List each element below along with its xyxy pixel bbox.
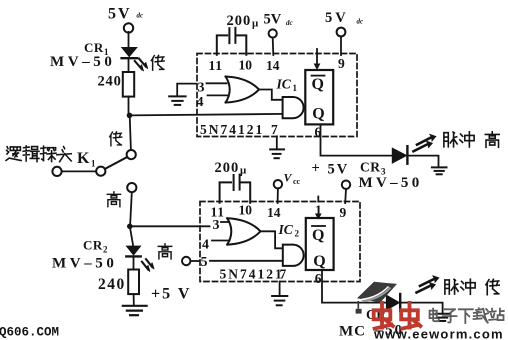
switch K1 blade bbox=[105, 157, 127, 169]
pin 6 label IC1 bbox=[315, 125, 322, 140]
wire CR4 cathode to ground bbox=[400, 303, 442, 313]
label Q IC2 bbox=[313, 253, 325, 270]
label CR3 bbox=[360, 160, 386, 177]
svg-text:2: 2 bbox=[103, 245, 108, 255]
wire pin 4 to OR gate input IC2 bbox=[212, 240, 230, 242]
pin 14 label IC2 bbox=[267, 205, 281, 220]
resistor 240 (lower) bbox=[128, 270, 139, 295]
svg-text:CR: CR bbox=[84, 40, 104, 55]
trigger arrow into Q block IC2 bbox=[315, 214, 322, 220]
wire pin 5 to AND gate input IC2 bbox=[210, 260, 282, 262]
svg-text:Q: Q bbox=[312, 227, 324, 244]
ground (CR4) bbox=[436, 314, 450, 321]
svg-text:+5 V: +5 V bbox=[151, 286, 191, 303]
label +5V bbox=[312, 161, 350, 178]
svg-text:Q: Q bbox=[312, 105, 324, 122]
svg-text:11: 11 bbox=[209, 58, 223, 73]
label Vcc bbox=[284, 171, 301, 187]
pin 10 label IC1 bbox=[239, 58, 253, 73]
label 高 (at switch) bbox=[107, 192, 120, 207]
wire high throw down to node B bbox=[130, 192, 132, 223]
label MV-50 bbox=[50, 54, 116, 70]
svg-text:3: 3 bbox=[198, 81, 205, 96]
pin 14 label IC1 bbox=[266, 58, 280, 73]
svg-text:200: 200 bbox=[227, 13, 252, 29]
label CR4 bbox=[366, 307, 392, 324]
OR gate IC1 bbox=[226, 77, 259, 103]
IC2 dashed box bbox=[200, 202, 360, 282]
pin 1 label IC2 bbox=[315, 203, 322, 218]
trigger arrow into Q block IC1 bbox=[314, 49, 321, 70]
label 5V dc (top-left supply) bbox=[108, 6, 143, 23]
label CR2 bbox=[83, 238, 108, 255]
ground (IC1 pin 7) bbox=[270, 149, 284, 158]
label 高 (at IC2 pin5 terminal) bbox=[158, 244, 171, 259]
svg-text:9: 9 bbox=[340, 205, 347, 220]
svg-text:6: 6 bbox=[315, 271, 322, 286]
label IC1 bbox=[276, 77, 298, 94]
overbar of Qbar IC2 bbox=[312, 225, 325, 227]
label 200u (top capacitor value) bbox=[227, 13, 260, 30]
pin 3 label IC1 bbox=[198, 81, 205, 96]
terminal 5V pin9 IC2 bbox=[342, 181, 350, 189]
wire Vcc terminal to pin 14 bbox=[277, 188, 279, 203]
wire OR output to AND gate input bbox=[259, 90, 283, 100]
LED CR2 (MV-50) bbox=[126, 246, 140, 256]
pin 6 label IC2 bbox=[315, 271, 322, 286]
wire node A to IC1 AND input (B pin) bbox=[130, 114, 283, 116]
wire pin 6 down and right to CR3 bbox=[321, 124, 393, 155]
wire pin 3 to OR gate input bbox=[207, 82, 227, 84]
wire 5V terminal to pin 9 IC2 bbox=[344, 189, 347, 203]
svg-text:cc: cc bbox=[293, 177, 301, 186]
svg-text:μ: μ bbox=[240, 165, 247, 177]
svg-text:CR: CR bbox=[83, 238, 103, 253]
wire 5V terminal to CR1 anode bbox=[128, 32, 130, 47]
wire pin 7 to ground IC2 bbox=[279, 282, 281, 296]
label 逻辑探头 bbox=[6, 146, 71, 162]
IC1 dashed box bbox=[197, 54, 357, 137]
label CR1 bbox=[84, 40, 109, 57]
ground (CR3) bbox=[432, 167, 447, 174]
pin 9 label IC2 bbox=[340, 205, 347, 220]
label Qbar IC1 bbox=[312, 76, 324, 93]
pin 4 label IC1 bbox=[197, 95, 204, 110]
svg-text:9: 9 bbox=[338, 56, 345, 71]
label MV-50 (CR3) bbox=[359, 175, 423, 191]
switch K1 throw contact (low) bbox=[127, 150, 136, 159]
svg-text:7: 7 bbox=[280, 267, 287, 282]
svg-text:IC: IC bbox=[278, 222, 294, 237]
pin 7 label IC1 bbox=[271, 122, 278, 137]
svg-text:5N74121: 5N74121 bbox=[200, 122, 264, 137]
ground (IC1 pin 3) bbox=[169, 96, 185, 105]
label Q IC1 bbox=[312, 105, 324, 122]
wire CR3 cathode to ground bbox=[407, 156, 438, 167]
LED CR4 (MC-50) bbox=[387, 294, 401, 311]
wire R1 to node A bbox=[128, 97, 130, 114]
resistor 240 (top) bbox=[123, 72, 134, 97]
pin 4 label IC2 bbox=[202, 237, 209, 252]
LED CR4 light arrows bbox=[417, 276, 439, 293]
AND gate IC1 bbox=[283, 97, 304, 118]
label 5N74121 IC1 bbox=[200, 122, 264, 137]
wire probe terminal to pole bbox=[62, 170, 96, 172]
terminal 5V pin14 IC1 bbox=[269, 29, 277, 37]
svg-text:240: 240 bbox=[98, 276, 126, 293]
label 5N74121 IC2 bbox=[220, 267, 284, 282]
LED CR1 (MV-50) bbox=[122, 48, 137, 59]
svg-text:7: 7 bbox=[271, 122, 278, 137]
label 240 (top) bbox=[98, 74, 122, 90]
LED CR3 light arrows bbox=[414, 135, 436, 152]
label 脉冲 高 bbox=[444, 132, 499, 148]
wire CR2 cathode to R2 bbox=[133, 258, 135, 270]
label 240 (lower) bbox=[98, 276, 126, 293]
pin 10 label IC2 bbox=[239, 203, 253, 218]
label 低 (at switch) bbox=[110, 132, 122, 146]
svg-text:5V: 5V bbox=[264, 12, 282, 28]
svg-text:4: 4 bbox=[202, 237, 209, 252]
svg-text:V: V bbox=[284, 171, 293, 185]
wire pin 4 to OR gate input bbox=[208, 94, 229, 96]
pin 1 tick IC2 bbox=[317, 197, 319, 202]
node A junction bbox=[127, 113, 133, 119]
svg-text:MC: MC bbox=[339, 324, 366, 340]
wire OR output to AND gate input IC2 bbox=[261, 231, 283, 248]
label IC2 bbox=[278, 222, 300, 239]
pin 5 label IC2 bbox=[201, 255, 208, 270]
svg-text:5V: 5V bbox=[328, 162, 350, 178]
label 脉冲 低 bbox=[445, 279, 499, 294]
AND gate IC2 bbox=[283, 245, 304, 266]
wire R2 to ground bbox=[133, 294, 135, 305]
wire pin 6 down and right to CR4 bbox=[322, 270, 386, 303]
svg-text:14: 14 bbox=[266, 58, 280, 73]
wire 5V terminal to pin 9 bbox=[340, 36, 342, 55]
svg-text:Q: Q bbox=[312, 76, 324, 93]
svg-text:CR: CR bbox=[360, 160, 381, 175]
terminal pin5 IC2 (high input) bbox=[182, 257, 190, 265]
LED CR1 light arrows bbox=[135, 59, 148, 72]
wire pin 7 to ground bbox=[276, 137, 278, 149]
svg-text:MV–50: MV–50 bbox=[52, 256, 118, 272]
svg-text:Q: Q bbox=[313, 253, 325, 270]
capacitor C1 200u across pins 11-10 bbox=[217, 28, 247, 55]
pin 9 label IC1 bbox=[338, 56, 345, 71]
pin 3 label IC2 bbox=[213, 218, 220, 233]
ground (below R2) bbox=[123, 306, 147, 315]
label K1 bbox=[77, 150, 96, 169]
svg-text:4: 4 bbox=[197, 95, 204, 110]
switch K1 pole contact bbox=[96, 167, 105, 176]
label 低 (top) bbox=[151, 55, 164, 70]
watermark logo graduation cap bbox=[356, 282, 397, 314]
svg-text:MV–50: MV–50 bbox=[50, 54, 116, 70]
svg-text:240: 240 bbox=[98, 74, 122, 90]
switch K1 probe terminal bbox=[52, 167, 61, 176]
svg-text:IC: IC bbox=[276, 77, 292, 92]
Q block IC1 bbox=[305, 70, 333, 124]
wire CR1 cathode to R1 bbox=[128, 59, 130, 72]
svg-text:10: 10 bbox=[239, 58, 253, 73]
svg-text:+: + bbox=[312, 161, 320, 177]
svg-text:2: 2 bbox=[295, 228, 300, 238]
svg-text:dc: dc bbox=[137, 12, 144, 20]
svg-text:MV–50: MV–50 bbox=[359, 175, 423, 191]
svg-text:3: 3 bbox=[213, 218, 220, 233]
svg-text:www.eeworm.com: www.eeworm.com bbox=[373, 327, 504, 340]
terminal 5V top-left bbox=[124, 23, 133, 32]
terminal Vcc pin14 IC2 bbox=[274, 180, 282, 188]
svg-text:μ: μ bbox=[252, 18, 259, 30]
switch K1 throw contact (high) bbox=[127, 183, 136, 192]
svg-text:Q606.COM: Q606.COM bbox=[0, 326, 59, 340]
watermark 电子下载站 gray bbox=[430, 308, 504, 323]
wire node A down to switch throw bbox=[130, 115, 131, 149]
pin 11 label IC1 bbox=[209, 58, 223, 73]
svg-text:5V: 5V bbox=[325, 10, 349, 26]
svg-text:14: 14 bbox=[267, 205, 281, 220]
watermark 虫虫 red bbox=[374, 303, 421, 329]
label +5 V bbox=[151, 286, 191, 303]
svg-text:5N74121: 5N74121 bbox=[220, 267, 284, 282]
wire pin5 terminal into box bbox=[190, 260, 199, 262]
label 5V dc (pin 9 supply) bbox=[325, 10, 363, 26]
LED CR3 (MV-50) bbox=[392, 146, 407, 164]
label 200u (lower capacitor value) bbox=[215, 160, 248, 177]
wire pin 3 to ground (outside box) bbox=[177, 84, 196, 96]
svg-text:10: 10 bbox=[239, 203, 253, 218]
label Qbar IC2 bbox=[312, 227, 324, 244]
wire pin 3 to OR gate input IC2 bbox=[221, 221, 228, 223]
svg-text:dc: dc bbox=[357, 18, 364, 26]
node B junction bbox=[127, 224, 133, 230]
label MV-50 (lower) bbox=[52, 256, 118, 272]
overbar of Qbar IC1 bbox=[312, 75, 325, 77]
wire node B down to CR2 anode bbox=[130, 226, 133, 246]
label MC-50 bbox=[339, 323, 404, 340]
label 5V dc (pin 14 supply) bbox=[264, 12, 293, 28]
svg-text:dc: dc bbox=[286, 19, 293, 27]
svg-text:K: K bbox=[77, 150, 90, 167]
wire node B to IC2 pin 3 bbox=[130, 225, 210, 227]
Q block IC2 bbox=[306, 218, 334, 270]
svg-text:200: 200 bbox=[215, 160, 240, 176]
svg-text:1: 1 bbox=[91, 159, 96, 169]
svg-text:1: 1 bbox=[293, 83, 298, 93]
svg-text:5: 5 bbox=[201, 255, 208, 270]
LED CR2 light arrows bbox=[142, 259, 154, 271]
ground (IC2 pin 7) bbox=[272, 296, 287, 305]
terminal 5V pin9 IC1 bbox=[337, 28, 346, 37]
pin 7 label IC2 bbox=[280, 267, 287, 282]
wire 5V terminal to pin 14 bbox=[272, 38, 275, 55]
OR gate IC2 bbox=[227, 218, 260, 244]
pin 11 label IC2 bbox=[211, 205, 225, 220]
svg-text:5V: 5V bbox=[108, 6, 132, 23]
capacitor C2 200u across pins 11-10 bbox=[220, 175, 251, 203]
